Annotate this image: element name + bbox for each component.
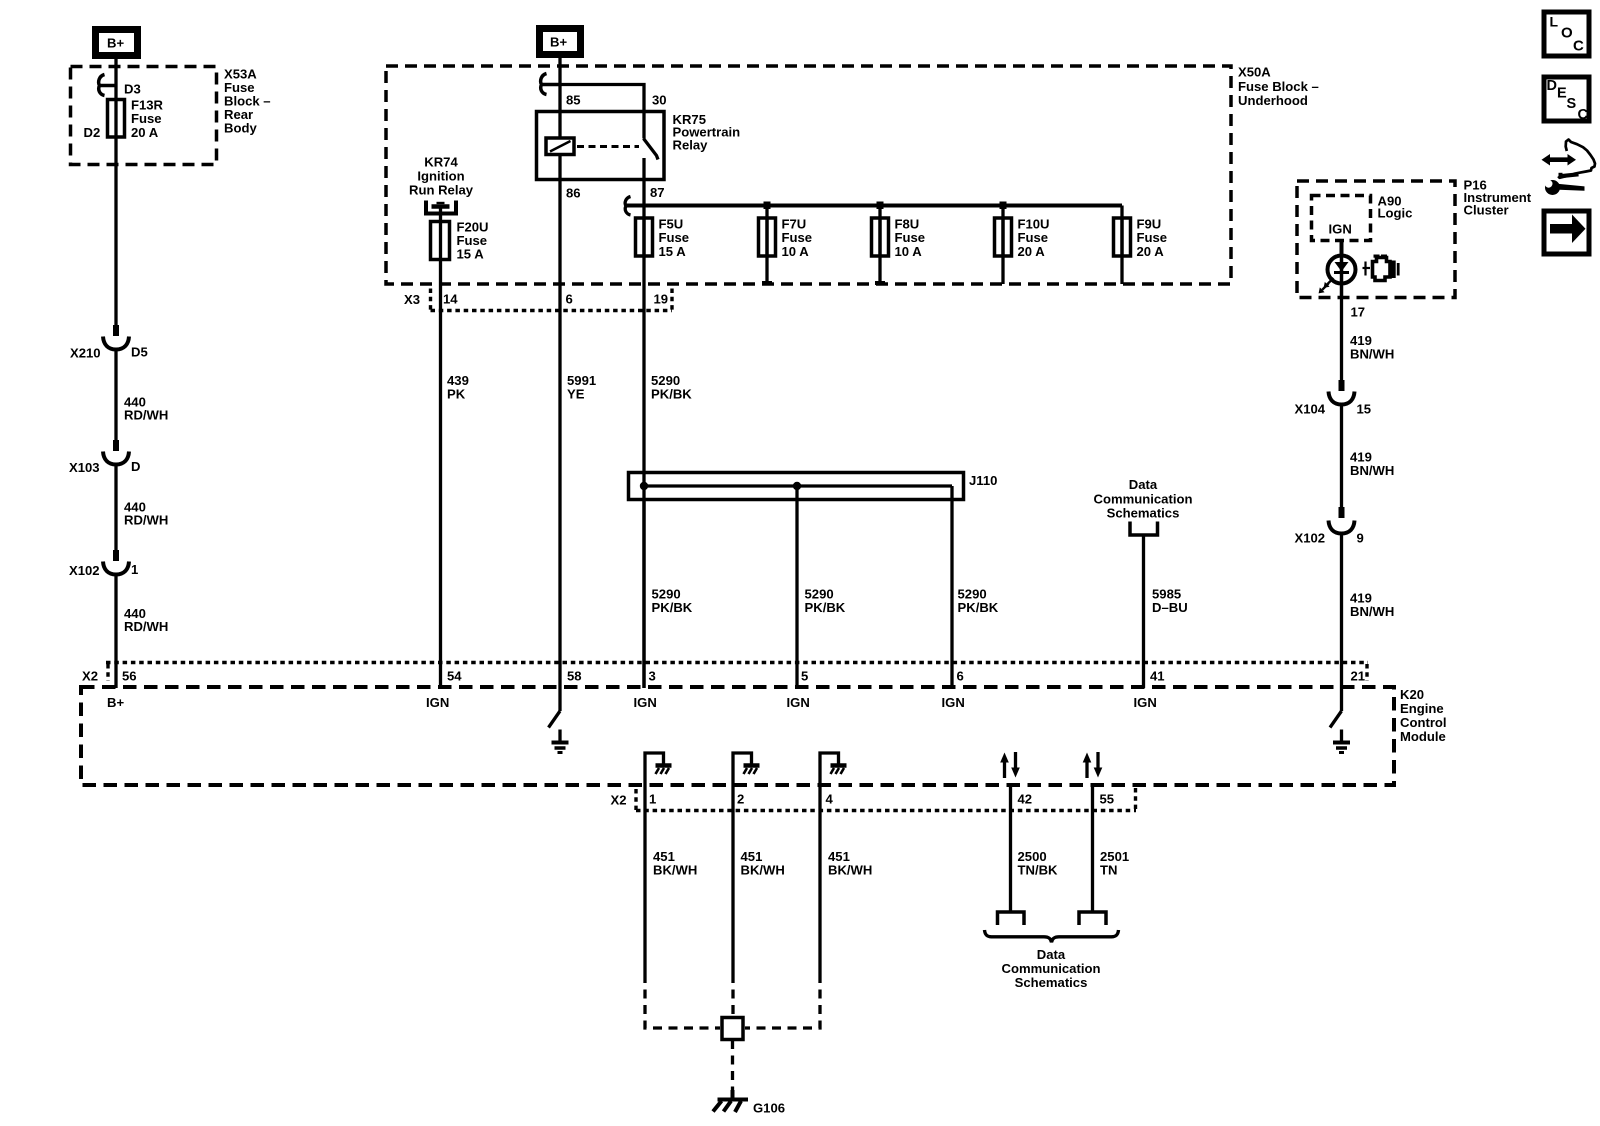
fuse F5U 15A (636, 217, 690, 259)
svg-text:Cluster: Cluster (1464, 203, 1509, 218)
junction F8U (877, 202, 884, 210)
svg-text:D–BU: D–BU (1152, 600, 1188, 615)
svg-text:BK/WH: BK/WH (741, 863, 785, 878)
svg-text:X103: X103 (69, 460, 100, 475)
wire 87 through fuse F5U (642, 180, 645, 689)
svg-text:BN/WH: BN/WH (1350, 346, 1394, 361)
svg-text:20 A: 20 A (1137, 244, 1165, 259)
logic block A90 dashed outline (1312, 196, 1371, 241)
connector X102 pin 1 (69, 550, 138, 578)
hidden run to ground (731, 1040, 734, 1093)
connector terminal D3 (99, 75, 141, 97)
label P16 Instrument Cluster (1464, 178, 1532, 218)
icon button next arrow (1544, 211, 1589, 254)
wire label 439 PK (447, 373, 469, 402)
junction node at 797,486 (793, 482, 801, 490)
svg-text:30: 30 (652, 93, 667, 108)
bidirectional data arrows (pin 55 internal) (1083, 752, 1103, 778)
svg-text:X102: X102 (69, 563, 100, 578)
fuse F9U 20A (1114, 206, 1168, 285)
wire label 5290 PK/BK (top) (651, 373, 692, 402)
wire IGN to indicator (1340, 241, 1344, 257)
connector terminal at 87 bus (625, 197, 630, 216)
svg-text:IGN: IGN (634, 695, 657, 710)
svg-text:41: 41 (1150, 669, 1165, 684)
svg-text:B+: B+ (107, 695, 124, 710)
ground (pin 58 internal) (552, 730, 569, 753)
wire 2501 TN (pin 55) (1091, 785, 1094, 912)
wire 451 BK/WH (pin 1) (643, 785, 646, 974)
svg-text:IGN: IGN (1134, 695, 1157, 710)
icon button DESC (1544, 77, 1589, 123)
svg-text:15 A: 15 A (457, 247, 485, 262)
svg-text:D: D (1547, 78, 1557, 94)
svg-text:86: 86 (566, 186, 581, 201)
ground G106 (713, 1090, 785, 1116)
svg-text:L: L (1550, 13, 1559, 29)
hidden harness run (dashed) pin2 (731, 974, 734, 1016)
svg-text:1: 1 (649, 792, 656, 807)
wire J110 to ECM pin 3 (642, 500, 645, 688)
svg-text:Ignition: Ignition (417, 169, 464, 184)
bidirectional data arrows (pin 42 internal) (1000, 752, 1020, 778)
svg-text:C: C (1578, 107, 1589, 123)
connector terminal at 85 branch (541, 74, 547, 95)
svg-text:B+: B+ (550, 35, 567, 50)
svg-text:Communication: Communication (1002, 961, 1101, 976)
svg-text:Schematics: Schematics (1107, 506, 1180, 521)
svg-text:Communication: Communication (1094, 491, 1193, 506)
splice node (722, 1018, 743, 1040)
wire B+ to relay coil pin 85 (558, 55, 561, 179)
icon button LOC (1544, 12, 1589, 56)
wire 440 RD/WH segment 4 to ECM pin 56 (114, 576, 117, 688)
svg-text:Data: Data (1037, 947, 1066, 962)
svg-text:PK/BK: PK/BK (651, 387, 692, 402)
svg-text:54: 54 (447, 669, 462, 684)
wire label 5290 PK/BK (pin5) (805, 587, 846, 616)
off-page connector symbol (pin 42) (998, 912, 1025, 925)
wire label 5290 PK/BK (pin6) (958, 587, 999, 616)
relay pin 87 stub (642, 158, 645, 180)
connector X102 pin 9 (1295, 507, 1364, 546)
svg-text:TN: TN (1100, 863, 1117, 878)
svg-text:Underhood: Underhood (1238, 93, 1308, 108)
svg-text:58: 58 (567, 669, 582, 684)
splice pack J110 (629, 473, 998, 500)
battery feed B+ (left) (96, 30, 138, 56)
pin 58 internal switch (549, 688, 561, 728)
connector X210 pin D5 (70, 325, 148, 361)
relay coil (546, 138, 574, 155)
svg-text:IGN: IGN (787, 695, 810, 710)
brace data communication (985, 930, 1119, 942)
chassis ground (pin 4 internal) (820, 753, 847, 785)
wire label 419 BN/WH (3) (1350, 591, 1394, 620)
svg-text:Run Relay: Run Relay (409, 183, 474, 198)
ground (pin 21 internal) (1333, 730, 1350, 753)
svg-text:J110: J110 (969, 473, 997, 488)
svg-text:15 A: 15 A (659, 244, 687, 259)
junction F10U (1000, 202, 1007, 210)
svg-text:BK/WH: BK/WH (828, 863, 872, 878)
svg-text:PK: PK (447, 387, 466, 402)
svg-text:D3: D3 (124, 82, 141, 97)
svg-text:3: 3 (649, 669, 656, 684)
svg-text:IGN: IGN (426, 695, 449, 710)
off-page connector symbol (pin 55) (1079, 912, 1106, 925)
svg-text:2: 2 (737, 792, 744, 807)
svg-text:E: E (1557, 86, 1567, 102)
relay actuation dashed link (577, 145, 639, 148)
svg-text:Data: Data (1129, 477, 1158, 492)
connector X2 row (ECM bottom) (611, 788, 1137, 811)
wire 2500 TN/BK (pin 42) (1009, 785, 1012, 912)
svg-text:X3: X3 (404, 292, 420, 307)
svg-text:RD/WH: RD/WH (124, 619, 168, 634)
wire branch to relay pin 30 (560, 85, 644, 112)
svg-text:5: 5 (801, 669, 808, 684)
svg-text:KR74: KR74 (424, 155, 458, 170)
svg-text:IGN: IGN (1329, 222, 1352, 237)
connector X3 row (404, 289, 672, 311)
label Data Communication Schematics (lower) (1002, 947, 1101, 990)
svg-text:D5: D5 (131, 345, 148, 360)
svg-text:K20: K20 (1400, 687, 1424, 702)
wire F20U down to ECM pin 54 (439, 222, 442, 689)
wire label 451 BK/WH (pin 4) (828, 849, 872, 878)
label X53A Fuse Block - Rear Body (224, 67, 271, 136)
svg-text:BK/WH: BK/WH (653, 863, 697, 878)
svg-text:PK/BK: PK/BK (805, 600, 846, 615)
svg-text:PK/BK: PK/BK (958, 600, 999, 615)
svg-text:X2: X2 (82, 669, 98, 684)
label Data Communication Schematics (upper) (1094, 477, 1193, 521)
svg-text:BN/WH: BN/WH (1350, 604, 1394, 619)
label KR75 Powertrain Relay (673, 112, 741, 152)
wire label 5991 YE (567, 373, 596, 402)
svg-text:X102: X102 (1295, 531, 1326, 546)
fuse F8U 10A (872, 206, 926, 285)
svg-text:D: D (131, 459, 140, 474)
svg-text:Fuse Block –: Fuse Block – (1238, 79, 1319, 94)
svg-text:20 A: 20 A (131, 125, 159, 140)
fuse F13R 20A (108, 98, 164, 140)
wire 440 RD/WH segment 2 (114, 351, 117, 440)
connector X103 pin D (69, 440, 140, 475)
svg-text:Logic: Logic (1378, 206, 1413, 221)
svg-text:Engine: Engine (1400, 701, 1444, 716)
svg-text:17: 17 (1351, 305, 1366, 320)
wire label 440 RD/WH (1) (124, 395, 168, 423)
junction node at 644,486 (640, 482, 648, 490)
svg-text:G106: G106 (753, 1101, 785, 1116)
svg-text:85: 85 (566, 93, 581, 108)
wire label 419 BN/WH (1) (1350, 333, 1394, 362)
svg-text:X104: X104 (1295, 402, 1326, 417)
svg-text:19: 19 (654, 292, 669, 307)
svg-text:S: S (1567, 96, 1577, 112)
svg-text:55: 55 (1100, 792, 1115, 807)
ECM K20 dashed outline (81, 687, 1394, 785)
wire 419 BN/WH to ECM pin 21 (1340, 535, 1343, 688)
label A90 Logic (1378, 194, 1413, 221)
svg-text:D2: D2 (84, 125, 101, 140)
wire 440 RD/WH segment 3 (114, 466, 117, 550)
wire label 5290 PK/BK (pin3) (652, 587, 693, 616)
label K20 Engine Control Module (1400, 687, 1447, 744)
pin 21 internal switch (1330, 688, 1342, 728)
indicator LED symbol (1319, 256, 1356, 298)
svg-text:Module: Module (1400, 729, 1446, 744)
svg-text:Control: Control (1400, 715, 1447, 730)
wire 5985 to ECM pin 41 (1142, 537, 1145, 689)
wire label 5985 D-BU (1152, 587, 1188, 616)
svg-text:X2: X2 (611, 793, 627, 808)
wire label 440 RD/WH (3) (124, 606, 168, 634)
svg-text:O: O (1561, 25, 1573, 42)
svg-text:X50A: X50A (1238, 65, 1271, 80)
svg-text:9: 9 (1357, 531, 1364, 546)
hidden harness run (dashed) pin1 (645, 974, 720, 1028)
connector X104 pin 15 (1295, 380, 1372, 417)
svg-text:10 A: 10 A (782, 244, 810, 259)
svg-text:IGN: IGN (942, 695, 965, 710)
engine icon (1363, 255, 1400, 281)
svg-text:21: 21 (1351, 669, 1366, 684)
connector X2 row (ECM top) (82, 663, 1368, 684)
fuse block X53A dashed outline (71, 67, 217, 165)
fuse bus from relay 87 (625, 204, 1122, 208)
label KR74 Ignition Run Relay (409, 155, 474, 198)
fuse F7U 10A (759, 206, 813, 285)
chassis ground (pin 2 internal) (733, 753, 760, 785)
wire 451 BK/WH (pin 2) (731, 785, 734, 974)
svg-text:87: 87 (650, 185, 665, 200)
svg-text:15: 15 (1357, 402, 1372, 417)
wire pin 86 down to ECM pin 58 (558, 179, 561, 688)
chassis ground (pin 1 internal) (645, 753, 672, 785)
svg-text:6: 6 (566, 292, 573, 307)
svg-text:PK/BK: PK/BK (652, 600, 693, 615)
svg-text:C: C (1573, 38, 1584, 55)
wire label 451 BK/WH (pin 2) (741, 849, 785, 878)
svg-text:B+: B+ (107, 36, 124, 51)
svg-text:14: 14 (443, 292, 458, 307)
off-page connector symbol (upper data comm) (1130, 522, 1158, 536)
svg-text:RD/WH: RD/WH (124, 408, 168, 423)
wire 419 BN/WH to X102 (1340, 406, 1343, 507)
fuse F20U 15A (431, 220, 489, 262)
relay switch blade (644, 139, 659, 160)
svg-text:42: 42 (1018, 792, 1033, 807)
svg-text:Schematics: Schematics (1015, 975, 1088, 990)
svg-text:X210: X210 (70, 346, 101, 361)
wire label 2501 TN (1100, 849, 1129, 878)
svg-text:Body: Body (224, 121, 257, 136)
fuse F10U 20A (995, 206, 1050, 285)
svg-text:Relay: Relay (673, 137, 709, 152)
hidden harness run (dashed) pin4 (745, 974, 820, 1028)
wire 419 BN/WH to X104 (1340, 298, 1343, 381)
svg-text:4: 4 (826, 792, 834, 807)
junction F7U (764, 202, 771, 210)
svg-text:TN/BK: TN/BK (1018, 863, 1059, 878)
wire label 451 BK/WH (pin 1) (653, 849, 697, 878)
wire label 419 BN/WH (2) (1350, 449, 1394, 478)
svg-text:6: 6 (957, 669, 964, 684)
svg-text:56: 56 (122, 669, 137, 684)
svg-text:1: 1 (131, 562, 138, 577)
battery feed B+ (center) (540, 29, 581, 55)
svg-text:10 A: 10 A (895, 244, 923, 259)
wire label 2500 TN/BK (1018, 849, 1059, 878)
instrument cluster P16 dashed outline (1297, 181, 1455, 298)
svg-text:YE: YE (567, 387, 585, 402)
relay switch pin30 stub (642, 112, 645, 139)
icon vehicle with arrow and wrench (1542, 140, 1596, 196)
wire J110 to ECM pin 6 (950, 486, 953, 688)
relay KR75 box (537, 112, 665, 180)
relay KR74 contact symbol (426, 201, 456, 222)
svg-text:20 A: 20 A (1018, 244, 1046, 259)
svg-text:RD/WH: RD/WH (124, 513, 168, 528)
fuse block X50A dashed outline (386, 66, 1231, 284)
svg-text:BN/WH: BN/WH (1350, 463, 1394, 478)
wire label 440 RD/WH (2) (124, 500, 168, 528)
wire 451 BK/WH (pin 4) (818, 785, 821, 974)
wire J110 to ECM pin 5 (795, 486, 798, 688)
wire B+ to fuse F13R (114, 59, 117, 325)
label X50A Fuse Block - Underhood (1238, 65, 1319, 109)
